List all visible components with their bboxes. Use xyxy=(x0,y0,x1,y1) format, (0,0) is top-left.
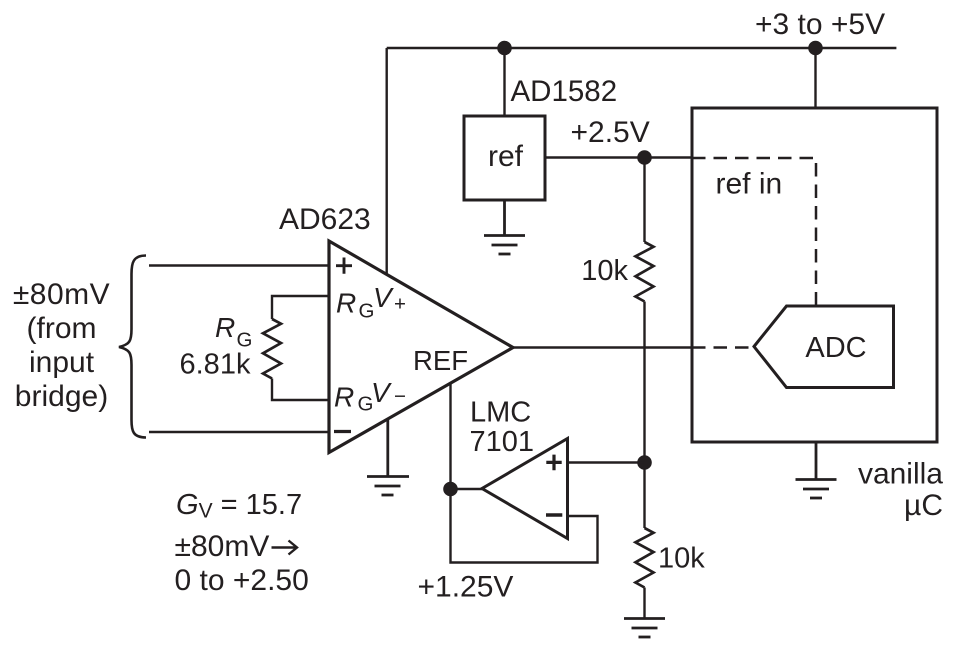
resistor: upper 10k xyxy=(636,242,654,302)
component: ADC block inside uC xyxy=(754,306,894,388)
svg-text:input: input xyxy=(29,346,95,379)
svg-text:µC: µC xyxy=(904,489,943,522)
wire: rail down to uC box xyxy=(814,48,816,108)
node: divider midpoint +1.25V dot xyxy=(637,455,652,470)
svg-text:LMC: LMC xyxy=(470,397,531,429)
wire: LMC7101 feedback loop xyxy=(451,489,598,563)
svg-text:±80mV: ±80mV xyxy=(175,530,270,563)
resistor: lower 10k xyxy=(636,528,654,588)
ground: below ref box xyxy=(484,200,525,254)
svg-text:+1.25V: +1.25V xyxy=(418,571,514,604)
svg-text:AD623: AD623 xyxy=(279,203,371,236)
node: junction at rail over AD1582 xyxy=(497,41,512,56)
pin: LMC7101 plus symbol xyxy=(546,455,561,471)
svg-text:6.81k: 6.81k xyxy=(180,349,251,381)
wire: dashed ADC input inside uC xyxy=(692,346,753,349)
node: +2.5V junction dot xyxy=(637,150,652,165)
svg-text:ref: ref xyxy=(488,140,524,173)
svg-text:−: − xyxy=(394,385,406,408)
svg-text:GV = 15.7: GV = 15.7 xyxy=(176,489,302,523)
svg-text:+2.5V: +2.5V xyxy=(571,116,650,149)
arrow: maps to output range xyxy=(272,541,298,555)
wire: LMC7101 output to node xyxy=(451,488,483,490)
node: junction at rail over uC xyxy=(808,41,823,56)
node: +1.25V junction dot at buffer output xyxy=(443,482,458,497)
svg-text:vanilla: vanilla xyxy=(858,458,943,491)
wire: divider bottom to ground xyxy=(643,588,645,619)
svg-text:10k: 10k xyxy=(658,543,705,575)
wire: bottom input to AD623 minus xyxy=(149,431,329,433)
wire: divider top segment from +2.5V node xyxy=(643,158,645,243)
svg-text:ADC: ADC xyxy=(805,332,866,364)
component: vanilla uC box xyxy=(692,108,937,442)
svg-text:+3 to +5V: +3 to +5V xyxy=(755,8,885,41)
svg-text:bridge): bridge) xyxy=(15,380,108,413)
svg-text:0 to +2.50: 0 to +2.50 xyxy=(175,564,309,597)
svg-text:V: V xyxy=(371,377,392,408)
wire: AD623 output to ADC xyxy=(513,346,692,348)
svg-text:R: R xyxy=(215,312,235,343)
ground: below lower 10k xyxy=(624,619,665,638)
wire: divider middle segment (crosses REF line, no dot) xyxy=(643,302,645,529)
wire: RG bottom stub xyxy=(272,379,329,401)
svg-text:(from: (from xyxy=(27,312,97,345)
wire: dashed ref-in net inside uC xyxy=(692,158,816,305)
resistor: RG 6.81k zigzag xyxy=(263,319,281,379)
wire: top input to AD623 plus xyxy=(149,264,329,266)
component: AD1582 ref box U2 xyxy=(464,116,545,200)
ground: below AD623 xyxy=(367,420,409,496)
svg-text:R: R xyxy=(336,288,356,319)
pin: AD623 minus symbol xyxy=(334,430,351,433)
svg-text:10k: 10k xyxy=(581,255,628,287)
svg-text:+: + xyxy=(394,293,406,316)
wire: RG top stub xyxy=(272,296,329,319)
brace: input bridge curly brace xyxy=(119,256,146,438)
op-amp: AD623 triangle U1 xyxy=(329,241,513,453)
wire: rail down to ref box xyxy=(503,48,505,116)
svg-text:AD1582: AD1582 xyxy=(511,75,618,108)
wire: AD623 REF pin down to buffer xyxy=(449,384,451,489)
ground: below uC box xyxy=(796,442,837,498)
pin: LMC7101 minus symbol xyxy=(546,513,562,516)
svg-text:R: R xyxy=(334,382,354,413)
svg-text:REF: REF xyxy=(413,345,468,376)
wire: rail drop to AD623 V+ supply xyxy=(386,48,388,275)
wire: ref box output to +2.5V node xyxy=(545,156,692,158)
svg-text:±80mV: ±80mV xyxy=(13,278,110,311)
pin: AD623 plus symbol xyxy=(336,258,352,274)
svg-text:7101: 7101 xyxy=(470,426,535,458)
svg-text:ref in: ref in xyxy=(716,168,783,201)
wire: LMC7101 plus input to divider midpoint xyxy=(568,461,645,463)
svg-text:V: V xyxy=(373,282,394,313)
wire: +3 to +5V top rail xyxy=(387,47,897,49)
op-amp: LMC7101 buffer U3 xyxy=(482,439,568,539)
